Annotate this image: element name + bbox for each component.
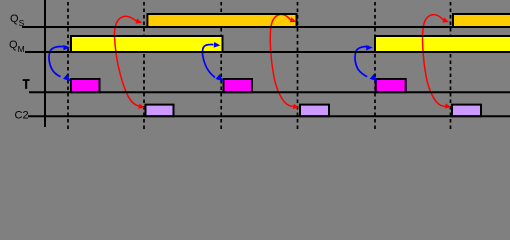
blue arrow 1 head at T pulse1 (63, 74, 71, 81)
dashed gridline t3 (220, 0, 222, 130)
QM pulse 1 fill (70, 35, 224, 53)
T pulse 3 border (376, 79, 406, 92)
QM pulse 2 border (375, 36, 510, 52)
red arrow 2 head at C2 pulse2 (293, 104, 300, 109)
C2 pulse 2 fill (299, 104, 330, 118)
red arrow 3 head at QS rise 2 (442, 17, 449, 22)
C2 pulse 2 border (300, 105, 329, 117)
label T (23, 79, 30, 89)
blue arrow 1 head at QM rise (63, 45, 70, 51)
red arrow 1 head at QS rise (136, 18, 143, 23)
QS pulse 1 fill (146, 13, 297, 28)
C2 pulse 3 fill (451, 104, 482, 118)
C2 pulse 1 fill (145, 104, 175, 118)
red arrow 2 head at QS fall (290, 17, 297, 22)
T pulse 3 fill (375, 78, 407, 93)
vertical axis line (44, 0, 46, 127)
blue arrow 1 curve (T pulse1 rise to QM rise) (49, 47, 63, 77)
blue arrow 2 head at QM fall (214, 42, 221, 48)
T baseline (29, 91, 510, 93)
dashed gridline t2 (143, 0, 145, 130)
dashed gridline t6 (450, 0, 452, 130)
C2 pulse 1 border (146, 105, 174, 117)
red arrow 3 head at C2 pulse3 (445, 103, 452, 108)
dashed gridline t1 (67, 0, 69, 130)
QS baseline (22, 26, 510, 28)
QS pulse 2 border (453, 14, 510, 27)
QM pulse 1 border (71, 36, 223, 52)
blue arrow 2 head at T pulse2 (216, 74, 224, 81)
C2 baseline (28, 115, 510, 117)
QM pulse 2 fill (374, 35, 510, 53)
red arrow 1 curve (QS rise to C2 pulse1 rise) (114, 16, 138, 106)
dashed gridline t5 (374, 0, 376, 130)
C2 pulse 3 border (452, 105, 481, 117)
red arrow 1 head at C2 pulse1 (138, 104, 145, 109)
dashed gridline t4 (297, 0, 299, 130)
T pulse 2 fill (223, 78, 254, 93)
blue arrow 3 head at T pulse3 (370, 74, 378, 81)
QS pulse 2 fill (452, 13, 510, 28)
T pulse 2 border (224, 79, 253, 92)
T pulse 1 border (71, 79, 100, 92)
T pulse 1 fill (70, 78, 101, 93)
red arrow 2 curve (QS fall to C2 pulse2 rise) (270, 14, 293, 106)
blue arrow 3 curve (T pulse3 rise to QM rise 2) (355, 47, 369, 77)
QS pulse 1 border (147, 14, 296, 27)
QM baseline (25, 51, 510, 53)
blue arrow 3 head at QM rise 2 (366, 45, 373, 51)
red arrow 3 curve (QS rise 2 to C2 pulse3 rise) (423, 15, 446, 107)
svg-text:C2: C2 (15, 109, 29, 121)
blue arrow 2 curve (QM fall to T pulse2 rise) (203, 45, 215, 78)
